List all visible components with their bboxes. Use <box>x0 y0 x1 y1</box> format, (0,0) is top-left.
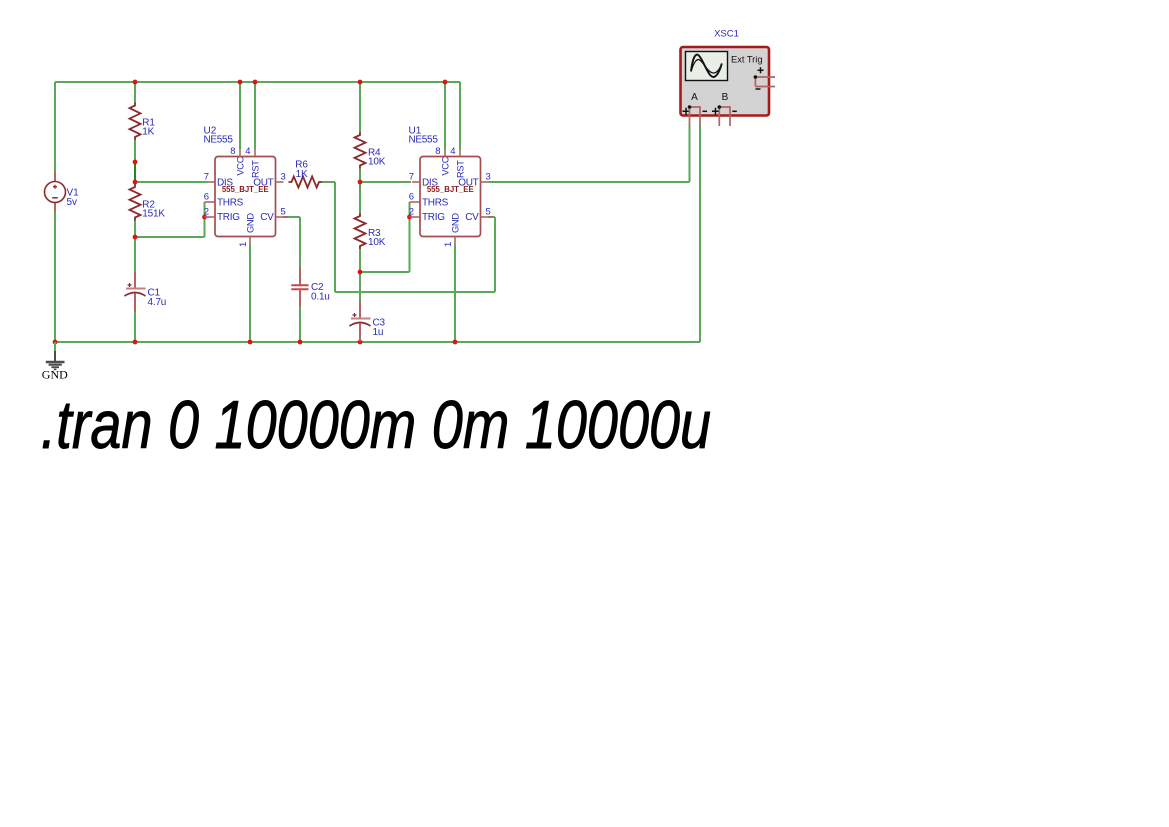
wire: R2 bottom <box>134 221 136 238</box>
resistor R2 151K <box>130 184 166 221</box>
node: junction C3 / ground rail <box>358 340 363 345</box>
svg-text:NE555: NE555 <box>204 135 234 146</box>
wire: node down to C3 <box>359 272 361 302</box>
svg-text:6: 6 <box>409 192 414 203</box>
wire: C1 to ground rail <box>134 312 136 343</box>
wire: U2 CV pin5 to C2 <box>283 216 300 218</box>
wire: R3 node to U1 TRIG riser <box>360 271 410 273</box>
svg-text:8: 8 <box>230 146 235 157</box>
svg-text:CV: CV <box>260 212 274 223</box>
svg-text:Ext Trig: Ext Trig <box>731 54 763 64</box>
wire: R6 output drop <box>334 182 336 292</box>
wire: VCC top rail <box>55 81 460 83</box>
ground symbol GND <box>42 342 68 382</box>
wire: riser to U1 THRS pin6 <box>409 202 411 272</box>
node: junction U1 TRIG pin2 <box>407 215 412 220</box>
wire: drop to C2 top <box>299 217 301 267</box>
node: junction U1 pin1 / ground rail <box>453 340 458 345</box>
svg-text:1K: 1K <box>142 127 154 138</box>
svg-text:8: 8 <box>435 146 440 157</box>
svg-text:6: 6 <box>204 192 209 203</box>
svg-text:GND: GND <box>42 368 68 382</box>
svg-text:151K: 151K <box>142 208 165 219</box>
node: junction top rail / U2 pin8 <box>238 80 243 85</box>
wire: rail to U1 VCC pin8 <box>444 82 446 149</box>
node: junction divider node <box>133 180 138 185</box>
wire: rail to R1 top <box>134 82 136 103</box>
svg-text:TRIG: TRIG <box>422 212 445 223</box>
svg-text:1u: 1u <box>373 327 384 338</box>
svg-text:XSC1: XSC1 <box>714 29 739 40</box>
svg-text:THRS: THRS <box>217 197 244 208</box>
wire: divider node to U2 DIS pin7 <box>135 181 207 183</box>
svg-text:1K: 1K <box>296 169 308 180</box>
svg-text:4: 4 <box>450 146 455 157</box>
capacitor C3 1u (polarized) <box>350 302 386 342</box>
svg-text:TRIG: TRIG <box>217 212 240 223</box>
svg-text:1: 1 <box>238 242 249 247</box>
svg-text:5v: 5v <box>67 197 78 208</box>
svg-text:7: 7 <box>204 172 209 183</box>
wire: rail corner to U1 RST pin4 <box>459 82 461 149</box>
wire: R3 bottom to node <box>359 249 361 272</box>
svg-text:.tran 0 10000m 0m 10000u: .tran 0 10000m 0m 10000u <box>41 388 711 463</box>
wire: riser to scope A+ terminal <box>689 125 691 183</box>
node: junction C1 / ground rail <box>133 340 138 345</box>
node: junction ground rail / GND <box>53 340 58 345</box>
wire: ground bottom rail <box>55 341 700 343</box>
wire: R6 output <box>322 181 335 183</box>
resistor R3 10K <box>355 213 386 249</box>
svg-text:4: 4 <box>245 146 250 157</box>
svg-text:10K: 10K <box>368 156 386 167</box>
svg-text:7: 7 <box>409 172 414 183</box>
svg-text:NE555: NE555 <box>409 135 439 146</box>
wire: rail to R4 top <box>359 82 361 132</box>
wire: rail to U2 VCC pin8 <box>239 82 241 149</box>
svg-text:VCC: VCC <box>441 156 451 175</box>
resistor R1 1K <box>130 103 156 141</box>
wire: riser to U2 THRS pin6 <box>204 202 206 237</box>
node: junction top rail / R1 <box>133 80 138 85</box>
wire: rail to U2 RST pin4 <box>254 82 256 149</box>
node: junction R3/C3 node <box>358 270 363 275</box>
wire: U2 GND pin1 to ground rail <box>249 244 251 342</box>
voltage source V1 5v <box>45 172 80 212</box>
svg-text:3: 3 <box>281 172 286 183</box>
wire: overlapped segment R1/R2 node <box>134 162 136 182</box>
svg-text:0.1u: 0.1u <box>311 291 330 302</box>
svg-text:RST: RST <box>251 160 261 178</box>
oscilloscope XSC1 <box>681 29 776 126</box>
wire: R4 bottom to node <box>359 169 361 183</box>
svg-text:5: 5 <box>486 207 491 218</box>
wire: R2 bottom to TRIG riser <box>135 236 205 238</box>
wire: riser to U1 CV pin5 <box>494 217 496 292</box>
node: junction R2/C1 node <box>133 235 138 240</box>
svg-text:5: 5 <box>281 207 286 218</box>
IC U2 NE555 555 timer <box>204 126 288 248</box>
wire: node down to R3 top <box>359 182 361 213</box>
svg-text:GND: GND <box>451 213 461 233</box>
wire: node down to C1 <box>134 237 136 272</box>
svg-text:4.7u: 4.7u <box>148 297 167 308</box>
svg-text:VCC: VCC <box>236 156 246 175</box>
svg-text:CV: CV <box>465 212 479 223</box>
node: junction U2 pin1 / ground rail <box>248 340 253 345</box>
svg-text:555_BJT_EE: 555_BJT_EE <box>427 185 474 194</box>
wire: C2 to ground rail <box>299 307 301 343</box>
svg-text:10K: 10K <box>368 237 386 248</box>
node: junction C2 / ground rail <box>298 340 303 345</box>
wire: node to U1 DIS pin7 <box>360 181 411 183</box>
node: junction top rail / U2 pin4 <box>253 80 258 85</box>
capacitor C2 0.1u <box>291 267 329 307</box>
node: junction U2 TRIG pin2 <box>202 215 207 220</box>
wire: U1 OUT pin3 to scope channel A <box>489 181 690 183</box>
resistor R6 1K <box>289 160 323 188</box>
svg-text:B: B <box>722 92 729 103</box>
wire: C3 to ground rail <box>359 326 361 342</box>
svg-text:555_BJT_EE: 555_BJT_EE <box>222 185 269 194</box>
IC U1 NE555 555 timer <box>409 126 493 248</box>
wire: V1 plus lead drop <box>54 82 56 172</box>
resistor R4 10K <box>355 132 386 169</box>
capacitor C1 4.7u (polarized) <box>125 272 167 312</box>
node: junction R4/R3 node <box>358 180 363 185</box>
node: junction top rail / U1 pin8 <box>443 80 448 85</box>
svg-text:THRS: THRS <box>422 197 449 208</box>
svg-text:3: 3 <box>486 172 491 183</box>
svg-text:2: 2 <box>204 207 209 218</box>
node: junction top rail / R4 <box>358 80 363 85</box>
wire: V1 minus to ground rail <box>54 212 56 343</box>
svg-text:GND: GND <box>246 213 256 233</box>
svg-text:1: 1 <box>443 242 454 247</box>
wire: R1 bottom to node <box>134 140 136 162</box>
svg-text:RST: RST <box>456 160 466 178</box>
wire: U1 GND pin1 to ground rail <box>454 244 456 342</box>
node: junction R1 node <box>133 160 138 165</box>
wire: ground rail up to scope A- <box>699 125 701 343</box>
wire: R6 output run to U1 CV <box>335 291 495 293</box>
svg-text:A: A <box>691 92 698 103</box>
wire: U1 CV link <box>488 216 495 218</box>
svg-text:2: 2 <box>409 207 414 218</box>
